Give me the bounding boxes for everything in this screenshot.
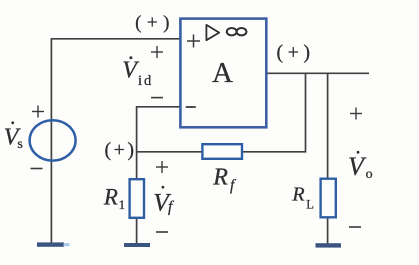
ground under R1 bbox=[124, 243, 150, 247]
op-amp plus input symbol bbox=[187, 35, 200, 48]
svg-text:id: id bbox=[138, 73, 153, 89]
svg-text:(+): (+) bbox=[135, 12, 175, 33]
wire Rf right to output node bbox=[242, 73, 306, 152]
label + of Vf bbox=[156, 161, 168, 173]
op-amp minus input symbol bbox=[186, 106, 196, 108]
svg-text:s: s bbox=[17, 137, 22, 152]
svg-text:V: V bbox=[122, 58, 139, 84]
svg-text:(+): (+) bbox=[104, 139, 136, 161]
svg-text:L: L bbox=[306, 198, 314, 212]
resistor Rf bbox=[202, 144, 242, 159]
label minus of Vf bbox=[156, 231, 168, 233]
wire inverting branch vertical to R1 bbox=[136, 106, 138, 180]
svg-text:R: R bbox=[291, 183, 304, 205]
svg-text:A: A bbox=[212, 57, 233, 89]
svg-text:R: R bbox=[212, 164, 228, 190]
label Vid bbox=[122, 56, 153, 89]
label + of Vo bbox=[350, 108, 362, 120]
wire from source top to non-inverting input bbox=[51, 39, 180, 243]
wire RL bottom to ground bbox=[327, 217, 329, 244]
wire output node to RL top bbox=[327, 73, 329, 179]
op-amp triangle symbol bbox=[206, 25, 219, 40]
label RL bbox=[291, 183, 313, 211]
label Vf bbox=[153, 186, 175, 217]
voltage source Vs circle bbox=[30, 120, 76, 160]
label Vo bbox=[348, 151, 373, 182]
label + of Vs bbox=[32, 106, 44, 118]
label Vs bbox=[4, 121, 23, 151]
ground under RL bbox=[316, 243, 342, 247]
op-amp infinity symbol bbox=[227, 28, 247, 35]
label R1 bbox=[103, 184, 125, 212]
wire output bbox=[266, 72, 369, 74]
label minus of Vs bbox=[31, 168, 43, 170]
resistor R1 bbox=[130, 179, 144, 218]
wire node to Rf left bbox=[137, 151, 203, 153]
ground under source bbox=[37, 242, 70, 246]
op-amp block A box bbox=[180, 19, 266, 128]
wire R1 bottom to ground bbox=[136, 218, 138, 245]
label minus of Vo bbox=[349, 226, 361, 228]
svg-text:R: R bbox=[103, 184, 118, 209]
label + of Vid bbox=[151, 46, 163, 58]
label Rf bbox=[212, 164, 237, 193]
svg-text:1: 1 bbox=[119, 197, 126, 212]
label minus of Vid bbox=[151, 97, 163, 99]
svg-text:o: o bbox=[366, 167, 373, 182]
wire inverting input horizontal bbox=[137, 106, 181, 108]
resistor RL bbox=[321, 179, 336, 218]
svg-text:(+): (+) bbox=[276, 42, 314, 64]
